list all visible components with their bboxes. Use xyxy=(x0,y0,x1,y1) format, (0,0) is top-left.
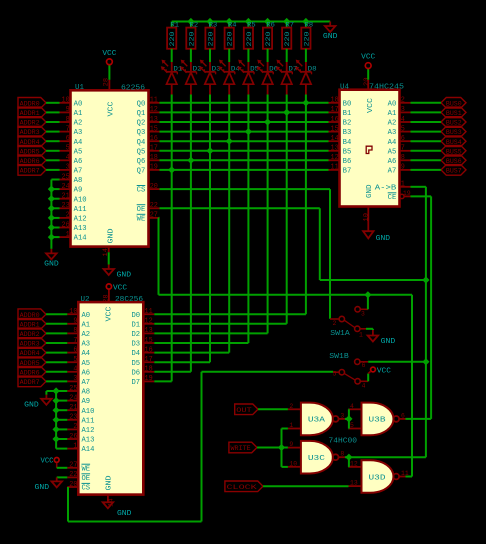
svg-text:A1: A1 xyxy=(82,321,91,329)
svg-text:A8: A8 xyxy=(82,389,91,397)
svg-text:A5: A5 xyxy=(388,148,397,156)
svg-text:A4: A4 xyxy=(82,350,91,358)
svg-text:74HC00: 74HC00 xyxy=(329,437,358,445)
svg-text:U4: U4 xyxy=(340,83,349,91)
svg-text:A11: A11 xyxy=(82,417,95,425)
svg-text:2: 2 xyxy=(333,320,337,327)
svg-text:25: 25 xyxy=(62,173,70,181)
svg-text:3: 3 xyxy=(66,164,70,172)
svg-text:GND: GND xyxy=(376,235,391,243)
svg-text:VCC: VCC xyxy=(377,368,392,376)
svg-text:11: 11 xyxy=(145,308,153,316)
svg-text:A10: A10 xyxy=(74,196,87,204)
svg-text:A4: A4 xyxy=(388,139,397,147)
svg-text:4: 4 xyxy=(350,403,354,410)
svg-text:GND: GND xyxy=(105,476,113,491)
svg-text:5: 5 xyxy=(73,356,77,364)
svg-text:4: 4 xyxy=(66,154,70,162)
svg-text:23: 23 xyxy=(62,202,70,210)
svg-text:17: 17 xyxy=(145,356,153,364)
svg-text:10: 10 xyxy=(62,97,70,105)
svg-text:12: 12 xyxy=(331,154,339,162)
svg-text:220: 220 xyxy=(303,32,311,47)
svg-text:62256: 62256 xyxy=(121,85,145,93)
svg-text:4: 4 xyxy=(73,366,77,374)
svg-text:4: 4 xyxy=(362,382,366,389)
svg-text:R8: R8 xyxy=(305,22,314,29)
svg-text:1: 1 xyxy=(359,331,363,338)
svg-text:WE: WE xyxy=(82,465,91,473)
svg-text:8: 8 xyxy=(340,451,344,458)
svg-text:A1: A1 xyxy=(388,110,397,118)
svg-text:20: 20 xyxy=(150,183,158,191)
svg-text:Q6: Q6 xyxy=(137,158,146,166)
svg-text:A7: A7 xyxy=(388,168,397,176)
svg-text:18: 18 xyxy=(150,154,158,162)
svg-text:24: 24 xyxy=(62,183,70,191)
svg-text:ADDR5: ADDR5 xyxy=(20,360,40,367)
svg-text:B2: B2 xyxy=(343,120,352,128)
svg-text:ADDR1: ADDR1 xyxy=(20,321,40,328)
svg-text:8: 8 xyxy=(66,116,70,124)
svg-text:22: 22 xyxy=(150,202,158,210)
svg-text:ADDR0: ADDR0 xyxy=(20,312,40,319)
svg-text:GND: GND xyxy=(107,229,115,244)
svg-text:D3: D3 xyxy=(132,341,141,349)
svg-text:A14: A14 xyxy=(82,446,95,454)
svg-text:ADDR7: ADDR7 xyxy=(20,379,40,386)
svg-text:Q1: Q1 xyxy=(137,110,146,118)
svg-text:ADDR2: ADDR2 xyxy=(20,331,40,338)
svg-text:U3C: U3C xyxy=(308,455,325,463)
svg-text:OUT: OUT xyxy=(236,407,251,414)
svg-text:28: 28 xyxy=(102,294,109,303)
svg-text:220: 220 xyxy=(265,32,273,47)
svg-text:BUS2: BUS2 xyxy=(446,120,462,127)
svg-text:ADDR3: ADDR3 xyxy=(20,341,40,348)
svg-text:A5: A5 xyxy=(82,360,91,368)
svg-text:A6: A6 xyxy=(82,369,91,377)
svg-text:ADDR6: ADDR6 xyxy=(20,369,40,376)
svg-text:VCC: VCC xyxy=(102,50,117,58)
svg-text:BUS5: BUS5 xyxy=(446,148,462,155)
svg-text:A13: A13 xyxy=(74,225,87,233)
svg-text:WRITE: WRITE xyxy=(231,445,251,452)
svg-text:R1: R1 xyxy=(171,22,180,29)
svg-text:5: 5 xyxy=(66,145,70,153)
svg-text:GND: GND xyxy=(381,338,396,346)
svg-text:6: 6 xyxy=(362,362,366,369)
svg-text:26: 26 xyxy=(69,433,77,441)
svg-text:Q2: Q2 xyxy=(137,120,146,128)
svg-text:U1: U1 xyxy=(75,84,84,92)
svg-text:A0: A0 xyxy=(74,100,83,108)
svg-text:BUS7: BUS7 xyxy=(446,168,462,175)
svg-text:27: 27 xyxy=(150,212,158,220)
svg-text:WE: WE xyxy=(137,216,146,224)
svg-text:9: 9 xyxy=(401,164,405,172)
svg-text:13: 13 xyxy=(350,480,358,487)
svg-text:A12: A12 xyxy=(74,216,87,224)
svg-text:Q4: Q4 xyxy=(137,139,146,147)
svg-text:A6: A6 xyxy=(74,158,83,166)
svg-text:19: 19 xyxy=(145,375,153,383)
svg-text:8: 8 xyxy=(401,154,405,162)
svg-text:220: 220 xyxy=(169,32,177,47)
svg-text:5: 5 xyxy=(333,371,337,378)
svg-text:A2: A2 xyxy=(74,120,83,128)
svg-text:ADDR2: ADDR2 xyxy=(20,120,40,127)
svg-text:D6: D6 xyxy=(132,369,141,377)
svg-text:220: 220 xyxy=(246,32,254,47)
svg-text:A3: A3 xyxy=(82,341,91,349)
svg-text:Q5: Q5 xyxy=(137,148,146,156)
svg-text:22: 22 xyxy=(69,471,77,479)
svg-text:28C256: 28C256 xyxy=(115,296,143,304)
svg-text:A10: A10 xyxy=(82,408,95,416)
svg-text:B0: B0 xyxy=(343,100,352,108)
svg-text:9: 9 xyxy=(73,318,77,326)
svg-text:GND: GND xyxy=(35,484,50,492)
svg-text:ADDR0: ADDR0 xyxy=(20,100,40,107)
svg-text:17: 17 xyxy=(150,145,158,153)
svg-text:OE: OE xyxy=(82,475,91,483)
svg-text:2: 2 xyxy=(289,403,293,410)
svg-text:8: 8 xyxy=(73,327,77,335)
svg-text:R3: R3 xyxy=(209,22,218,29)
svg-text:10: 10 xyxy=(69,308,77,316)
svg-text:VCC: VCC xyxy=(113,285,128,293)
svg-text:2: 2 xyxy=(66,212,70,220)
svg-text:7: 7 xyxy=(73,337,77,345)
svg-text:A6: A6 xyxy=(388,158,397,166)
svg-text:Q7: Q7 xyxy=(137,168,146,176)
svg-text:10: 10 xyxy=(289,460,297,467)
svg-text:18: 18 xyxy=(145,366,153,374)
svg-text:15: 15 xyxy=(331,125,339,133)
svg-text:VCC: VCC xyxy=(361,54,376,62)
svg-text:15: 15 xyxy=(145,337,153,345)
svg-text:4: 4 xyxy=(401,116,405,124)
svg-text:18: 18 xyxy=(331,97,339,105)
svg-text:A9: A9 xyxy=(82,398,91,406)
svg-text:1: 1 xyxy=(73,442,77,450)
svg-text:VCC: VCC xyxy=(105,307,113,322)
svg-text:1: 1 xyxy=(401,181,405,189)
svg-text:CS: CS xyxy=(82,485,91,493)
svg-text:VCC: VCC xyxy=(41,457,54,465)
svg-text:5: 5 xyxy=(401,125,405,133)
svg-text:D7: D7 xyxy=(132,379,141,387)
svg-text:3: 3 xyxy=(73,375,77,383)
svg-text:16: 16 xyxy=(145,346,153,354)
svg-text:5: 5 xyxy=(350,422,354,429)
svg-text:20: 20 xyxy=(69,481,77,489)
svg-text:B6: B6 xyxy=(343,158,352,166)
svg-text:D2: D2 xyxy=(132,331,141,339)
svg-text:ADDR3: ADDR3 xyxy=(20,129,40,136)
svg-text:GND: GND xyxy=(44,261,59,269)
svg-text:17: 17 xyxy=(331,106,339,114)
svg-text:21: 21 xyxy=(62,193,70,201)
svg-text:SW1A: SW1A xyxy=(330,330,350,338)
svg-text:12: 12 xyxy=(145,318,153,326)
svg-text:Q3: Q3 xyxy=(137,129,146,137)
svg-text:12: 12 xyxy=(150,106,158,114)
svg-text:D5: D5 xyxy=(132,360,141,368)
svg-text:D8: D8 xyxy=(308,66,317,73)
svg-text:A3: A3 xyxy=(388,129,397,137)
svg-text:R7: R7 xyxy=(286,22,295,29)
svg-text:CS: CS xyxy=(137,187,146,195)
svg-text:23: 23 xyxy=(69,414,77,422)
svg-text:11: 11 xyxy=(150,97,158,105)
svg-text:D0: D0 xyxy=(132,312,141,320)
svg-text:GND: GND xyxy=(24,401,39,409)
svg-text:220: 220 xyxy=(284,32,292,47)
svg-text:220: 220 xyxy=(207,32,215,47)
svg-text:A12: A12 xyxy=(82,427,95,435)
svg-text:25: 25 xyxy=(69,385,77,393)
svg-text:14: 14 xyxy=(331,135,339,143)
svg-text:7: 7 xyxy=(66,125,70,133)
svg-text:A2: A2 xyxy=(82,331,91,339)
svg-text:2: 2 xyxy=(401,97,405,105)
svg-text:220: 220 xyxy=(188,32,196,47)
svg-text:GND: GND xyxy=(117,510,132,518)
svg-text:9: 9 xyxy=(289,441,293,448)
svg-text:A1: A1 xyxy=(74,110,83,118)
svg-text:R6: R6 xyxy=(266,22,275,29)
svg-text:19: 19 xyxy=(150,164,158,172)
svg-text:2: 2 xyxy=(73,423,77,431)
svg-text:11: 11 xyxy=(331,164,339,172)
svg-text:VCC: VCC xyxy=(367,98,375,113)
svg-text:24: 24 xyxy=(69,394,77,402)
svg-text:GND: GND xyxy=(117,272,132,280)
svg-text:GND: GND xyxy=(323,33,338,41)
svg-text:27: 27 xyxy=(69,462,77,470)
svg-text:3: 3 xyxy=(340,412,344,419)
svg-text:6: 6 xyxy=(401,412,405,419)
svg-text:U3A: U3A xyxy=(308,417,326,425)
svg-text:3: 3 xyxy=(361,310,365,317)
svg-text:9: 9 xyxy=(66,106,70,114)
svg-text:12: 12 xyxy=(350,460,358,467)
svg-text:7: 7 xyxy=(401,145,405,153)
svg-text:BUS1: BUS1 xyxy=(446,110,462,117)
svg-text:21: 21 xyxy=(69,404,77,412)
svg-text:16: 16 xyxy=(331,116,339,124)
svg-text:A14: A14 xyxy=(74,235,87,243)
svg-text:GND: GND xyxy=(366,185,374,199)
svg-text:ADDR7: ADDR7 xyxy=(20,168,40,175)
svg-text:OE: OE xyxy=(137,206,146,214)
svg-text:74HC245: 74HC245 xyxy=(369,83,404,91)
svg-text:A->B: A->B xyxy=(375,184,397,192)
svg-text:U2: U2 xyxy=(81,296,90,304)
svg-text:U3D: U3D xyxy=(369,474,386,482)
svg-text:A7: A7 xyxy=(74,168,83,176)
svg-text:B1: B1 xyxy=(343,110,352,118)
svg-text:A7: A7 xyxy=(82,379,91,387)
svg-text:13: 13 xyxy=(145,327,153,335)
svg-text:6: 6 xyxy=(73,346,77,354)
svg-text:D4: D4 xyxy=(132,350,141,358)
svg-text:220: 220 xyxy=(227,32,235,47)
svg-text:A13: A13 xyxy=(82,437,95,445)
svg-text:ADDR5: ADDR5 xyxy=(20,148,40,155)
svg-text:B5: B5 xyxy=(343,148,352,156)
svg-text:ADDR1: ADDR1 xyxy=(20,110,40,117)
svg-text:A0: A0 xyxy=(388,100,397,108)
svg-text:10: 10 xyxy=(362,213,369,222)
svg-text:B7: B7 xyxy=(343,168,352,176)
svg-text:U3B: U3B xyxy=(369,417,386,425)
svg-text:D1: D1 xyxy=(132,321,141,329)
svg-text:BUS3: BUS3 xyxy=(446,129,462,136)
svg-text:3: 3 xyxy=(401,106,405,114)
svg-text:B4: B4 xyxy=(343,139,352,147)
svg-text:CLOCK: CLOCK xyxy=(227,484,257,491)
svg-text:A4: A4 xyxy=(74,139,83,147)
svg-text:26: 26 xyxy=(62,221,70,229)
svg-text:R4: R4 xyxy=(228,22,237,29)
svg-text:A5: A5 xyxy=(74,148,83,156)
svg-text:1: 1 xyxy=(289,422,293,429)
svg-text:R2: R2 xyxy=(190,22,199,29)
svg-text:6: 6 xyxy=(66,135,70,143)
svg-text:A3: A3 xyxy=(74,129,83,137)
svg-text:BUS6: BUS6 xyxy=(446,158,462,165)
svg-text:A2: A2 xyxy=(388,120,397,128)
svg-text:R5: R5 xyxy=(247,22,256,29)
svg-text:13: 13 xyxy=(331,145,339,153)
svg-text:CE: CE xyxy=(388,194,397,202)
svg-text:19: 19 xyxy=(403,190,411,197)
svg-text:B3: B3 xyxy=(343,129,352,137)
svg-text:ADDR4: ADDR4 xyxy=(20,350,40,357)
svg-text:A0: A0 xyxy=(82,312,91,320)
svg-text:Q0: Q0 xyxy=(137,100,146,108)
svg-text:A9: A9 xyxy=(74,187,83,195)
svg-text:VCC: VCC xyxy=(107,102,115,117)
svg-text:15: 15 xyxy=(150,125,158,133)
svg-text:BUS0: BUS0 xyxy=(446,100,462,107)
svg-text:16: 16 xyxy=(150,135,158,143)
svg-text:ADDR6: ADDR6 xyxy=(20,158,40,165)
svg-text:A8: A8 xyxy=(74,177,83,185)
svg-text:A11: A11 xyxy=(74,206,87,214)
svg-text:1: 1 xyxy=(66,231,70,239)
svg-text:SW1B: SW1B xyxy=(329,353,349,361)
svg-text:6: 6 xyxy=(401,135,405,143)
svg-text:13: 13 xyxy=(150,116,158,124)
